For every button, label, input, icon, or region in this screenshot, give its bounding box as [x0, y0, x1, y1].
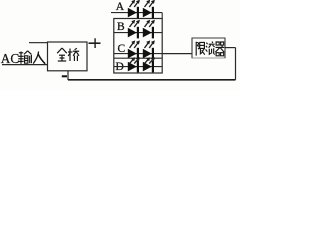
wire row A: [111, 12, 162, 14]
divider line: [114, 57, 162, 59]
glyph 限: [196, 42, 205, 56]
LED D2: [143, 61, 154, 73]
wire: [29, 42, 48, 44]
glyph 流: [206, 42, 215, 55]
current limiter box 限流器: [192, 38, 225, 58]
LED A1: [128, 7, 139, 19]
wire: [235, 48, 237, 80]
LED A2: [143, 7, 154, 19]
wire row B: [114, 32, 162, 34]
wire: [225, 47, 236, 49]
svg-text:A: A: [116, 1, 125, 13]
glyph 输: [18, 51, 31, 64]
wire: [67, 71, 69, 80]
LED C1: [128, 48, 139, 60]
glyph 全: [57, 48, 67, 61]
wire: [162, 53, 192, 55]
glyph 器: [215, 42, 224, 56]
full-bridge rectifier box 全桥: [48, 42, 88, 71]
LED panel box: [114, 19, 162, 74]
bottom bus wire: [68, 79, 236, 81]
LED D1: [128, 61, 139, 73]
wire row D: [114, 66, 162, 68]
wire row C: [114, 53, 162, 55]
minus sign: [62, 75, 67, 77]
wire: [161, 13, 163, 19]
node AC input label "AC输入": [1, 51, 45, 66]
wire: [2, 64, 48, 66]
plus sign: [89, 38, 101, 48]
svg-text:AC: AC: [1, 51, 20, 66]
glyph 桥: [68, 48, 79, 61]
LED C2: [143, 48, 154, 60]
LED B2: [143, 27, 154, 39]
svg-text:D: D: [116, 61, 124, 73]
glyph 入: [33, 52, 45, 64]
LED B1: [128, 27, 139, 39]
svg-text:B: B: [117, 21, 125, 33]
